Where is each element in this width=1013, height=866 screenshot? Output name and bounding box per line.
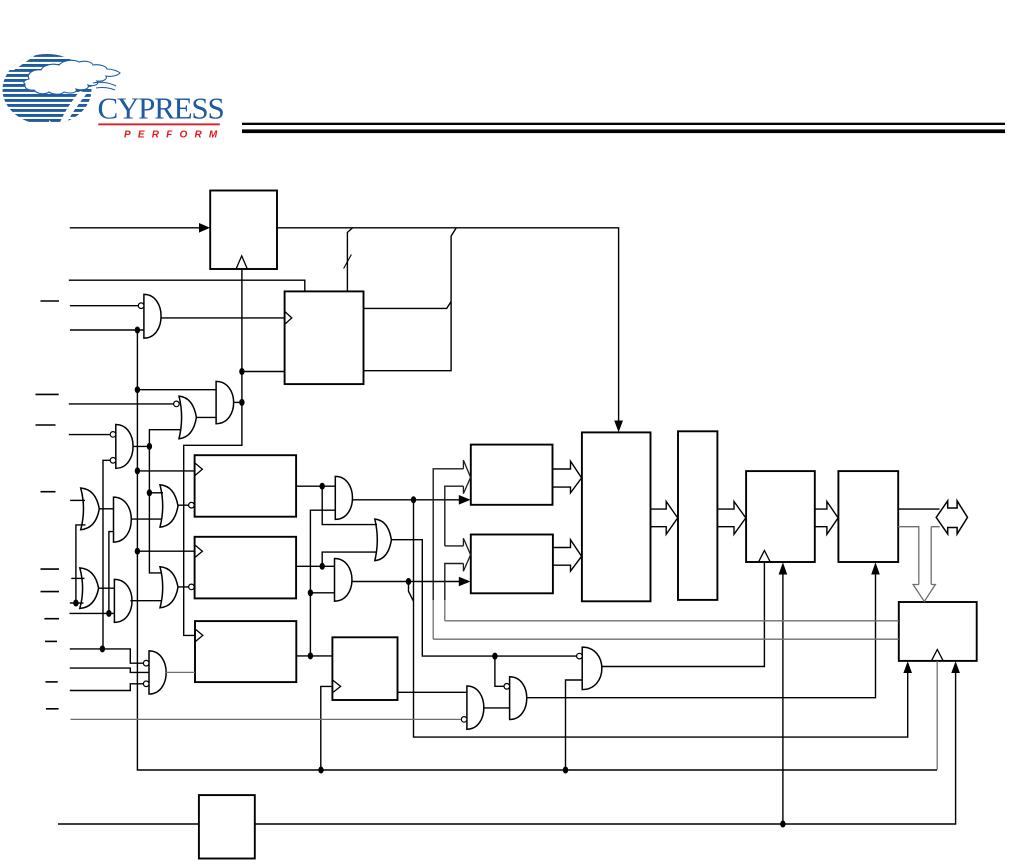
tree cloud — [24, 60, 120, 94]
hollow bus arrow BX3 to BX4 — [815, 502, 838, 535]
and gate J — [335, 559, 352, 602]
or gate G5 — [81, 488, 100, 530]
gray wire gate D output to R3 — [166, 671, 195, 673]
wire G2 output to G1 lower — [196, 416, 216, 418]
arrowhead into BX3 bottom — [779, 562, 788, 574]
clock triangle R1 — [195, 463, 202, 475]
nand gate N1 — [144, 294, 161, 338]
wire G9b lower input — [70, 612, 115, 614]
wire J output to RB arrow — [352, 581, 460, 583]
gray bus vertical left outline — [432, 600, 434, 639]
clock triangle FF1 — [333, 680, 341, 692]
memory array block — [582, 432, 651, 601]
arrowhead into BX4 bottom — [871, 562, 880, 574]
wire bottom line — [58, 667, 956, 825]
wire N1 upper input — [70, 305, 138, 307]
wire N1 output to B2 clock — [161, 317, 285, 319]
wire G6 lower input — [109, 532, 114, 614]
hollow arrowhead into BX5 top — [913, 585, 935, 602]
wire G3 output down to G9 upper — [149, 446, 162, 573]
wire R3 output to FF1 — [296, 655, 332, 657]
wire G7 output to G9b — [98, 587, 114, 589]
wire G1 upper input — [137, 389, 216, 391]
bubble G8 output — [189, 502, 195, 508]
header double rule — [242, 123, 1005, 125]
clock triangle BX3 — [759, 551, 770, 562]
bubble D upper input — [143, 660, 149, 666]
bubble A lower input — [461, 717, 467, 723]
wire gate B output to BX4 arrow — [527, 568, 876, 698]
wire R2 output to J upper — [296, 565, 334, 567]
wire B1 clock chain to R3 clock — [184, 269, 242, 636]
bubble G3 lower input — [110, 458, 116, 464]
or gate I — [375, 519, 392, 561]
wire G1 output — [233, 401, 242, 403]
or gate G8 — [160, 485, 178, 527]
wire branch to I lower — [322, 552, 377, 566]
wire FF1 output to gate A upper — [398, 691, 467, 693]
hollow bus arrow column block to BX3 — [717, 502, 745, 535]
hollow arrowhead into RB — [463, 538, 470, 571]
gray bus BX4 to BX5 outline — [898, 527, 940, 585]
wire H output to RA arrow — [352, 499, 459, 501]
wire G3 lower input vertical x103 — [103, 460, 110, 649]
svg-text:CYPRESS: CYPRESS — [98, 91, 224, 126]
wire G9 output to R2 — [178, 586, 195, 588]
hollow arrowhead into RA — [463, 460, 470, 494]
wire G5 lower input from G7 line — [76, 525, 86, 603]
gray bus right outline segments — [444, 600, 446, 621]
nand gate G3 — [116, 425, 133, 469]
wire G8 upper input — [149, 492, 163, 494]
wire N1 lower input — [70, 329, 144, 331]
Cypress logo globe — [0, 52, 224, 141]
wire B2 output upper with jog — [364, 302, 452, 309]
nand gate A — [467, 686, 484, 729]
wire B1 output to MEM arrow — [277, 228, 619, 422]
wire G5 output to G6 — [99, 508, 114, 510]
wire branch to I upper — [322, 486, 377, 524]
bidirectional bus arrow — [936, 501, 967, 534]
hollow bus arrow RB to MEM — [553, 540, 582, 571]
wire vertical trunk x137 — [137, 330, 937, 770]
register R3 — [195, 621, 296, 682]
clock triangle B1 — [236, 256, 247, 269]
wire drop to B2 top with bus jog — [347, 228, 352, 292]
bubble G2 input — [174, 401, 180, 407]
clock triangle R2 — [195, 545, 202, 557]
wire G5 upper input — [70, 499, 85, 501]
wire x413 down to BX5 arrow1 — [414, 500, 908, 737]
gray wire BX5 clock feed — [936, 661, 938, 769]
wire gate A output to gate B lower — [484, 707, 510, 709]
register R1 — [195, 455, 297, 517]
wire branch to gate B bubble — [495, 656, 504, 686]
register B2 — [285, 291, 364, 384]
and gate H — [335, 476, 352, 519]
register RB — [471, 535, 553, 594]
wire gate C lower input — [566, 680, 583, 770]
wire input to B1 — [70, 227, 200, 229]
bubble N1 input — [138, 303, 144, 309]
arrowhead into MEM top — [614, 421, 623, 433]
wire I output to gate C chain — [391, 540, 577, 656]
or gate G7 — [80, 568, 99, 609]
or gate G2 — [179, 396, 196, 439]
and gate G6 — [114, 497, 132, 542]
wire G8 output to R1 — [178, 504, 195, 506]
register B1 — [210, 191, 277, 270]
wire R1 clock feed — [137, 470, 195, 472]
wire G2 upper input — [69, 403, 174, 405]
bubble G3 upper input — [110, 432, 116, 438]
arrowhead into RA data — [459, 495, 471, 505]
flip-flop FF1 — [332, 637, 397, 700]
gray long input wire to gate A bubble — [71, 718, 462, 720]
arrowhead into BX5 bottom left — [903, 661, 912, 673]
wire R2 clock feed — [137, 550, 195, 552]
arrowhead into BX5 bottom right — [951, 661, 960, 673]
wire gate C output to BX3 clock — [602, 562, 765, 667]
bus slash mark — [344, 255, 352, 269]
input pin dashes — [41, 300, 60, 302]
bottom box — [199, 795, 255, 858]
wire BX3 data arrow vertical — [782, 568, 784, 825]
gray bus pair into BX5 — [433, 621, 899, 639]
wire J lower input — [310, 592, 334, 594]
register RA — [471, 445, 553, 505]
wire G7 lower input — [70, 602, 84, 604]
wire B2 output lower — [364, 228, 457, 371]
wire H lower input from x310 — [310, 510, 335, 656]
or gate G9 — [160, 567, 178, 608]
trunk swoosh — [58, 91, 87, 128]
wire G6 output to G8 lower — [131, 518, 162, 520]
wire J output merge jog — [409, 582, 414, 602]
svg-text:PERFORM: PERFORM — [124, 130, 224, 141]
wire G3 upper input — [69, 434, 110, 436]
bubble C upper input — [577, 653, 583, 659]
hollow bus arrow RA to MEM — [553, 461, 582, 493]
bubble G9 output — [189, 584, 195, 590]
and gate G9b — [114, 579, 132, 622]
wire G7 upper input — [71, 577, 84, 579]
hollow bus arrow MEM to column block — [651, 502, 678, 535]
wire FF1 clock feed — [321, 686, 333, 770]
register BX3 — [746, 471, 815, 562]
wire BX4 to bidir arrow — [898, 508, 939, 510]
nand gate C — [582, 647, 602, 690]
clock triangle B2 — [285, 312, 292, 324]
register BX4 — [838, 471, 898, 562]
and gate G1 — [216, 381, 234, 423]
wire R1 output to H upper — [296, 485, 335, 487]
bubble D lower input — [143, 681, 149, 687]
arrowhead into B1 — [199, 223, 210, 233]
nand gate D — [149, 651, 166, 694]
bubble B upper input — [504, 684, 510, 690]
clock triangle BX5 — [932, 650, 943, 661]
column block — [678, 431, 717, 600]
clock triangle R3 — [196, 629, 203, 641]
wire inputs to gate D with jogs — [70, 649, 144, 663]
wire input to B2 top — [69, 280, 305, 291]
nand gate B — [510, 677, 527, 720]
wire G9b output to G9 lower — [130, 600, 162, 602]
register BX5 — [899, 602, 977, 661]
white stripe steps top-left — [0, 52, 40, 70]
wire to B2 data input — [242, 371, 285, 373]
junction dots — [135, 327, 140, 334]
arrowhead into RB data — [459, 577, 471, 587]
wire G3 output to G2 lower input — [133, 430, 182, 447]
register R2 — [195, 537, 297, 599]
